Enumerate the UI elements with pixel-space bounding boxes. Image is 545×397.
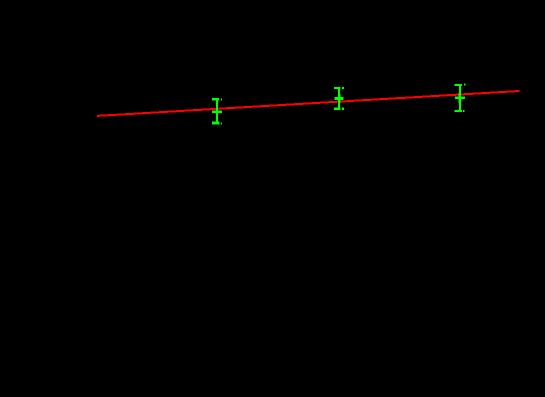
top cap right tick (342, 87, 344, 89)
vertical error line (216, 99, 218, 124)
bottom cap right tick (342, 108, 344, 110)
plus marker horizontal bar (334, 97, 343, 100)
plus marker vertical bar (338, 93, 340, 103)
data point 3 error bar (green) (455, 84, 466, 112)
top cap (212, 98, 219, 101)
plus marker horizontal bar (212, 110, 222, 113)
bottom cap (455, 110, 462, 112)
top cap (334, 87, 341, 89)
top cap right tick (221, 98, 222, 100)
data point 1 error bar (green) (212, 98, 222, 125)
bottom cap right tick (463, 110, 465, 112)
data point 2 error bar (green) (334, 87, 344, 110)
vertical error line (338, 88, 340, 109)
bottom cap (212, 122, 220, 125)
plus marker horizontal bar (455, 97, 465, 100)
fit line (red) (97, 91, 520, 116)
bottom cap right tick (221, 122, 222, 124)
plus marker vertical bar (459, 93, 461, 103)
top cap (455, 84, 462, 86)
vertical error line (459, 85, 461, 111)
plus marker vertical bar (216, 107, 218, 117)
top cap right tick (464, 84, 465, 86)
bottom cap (334, 108, 341, 110)
